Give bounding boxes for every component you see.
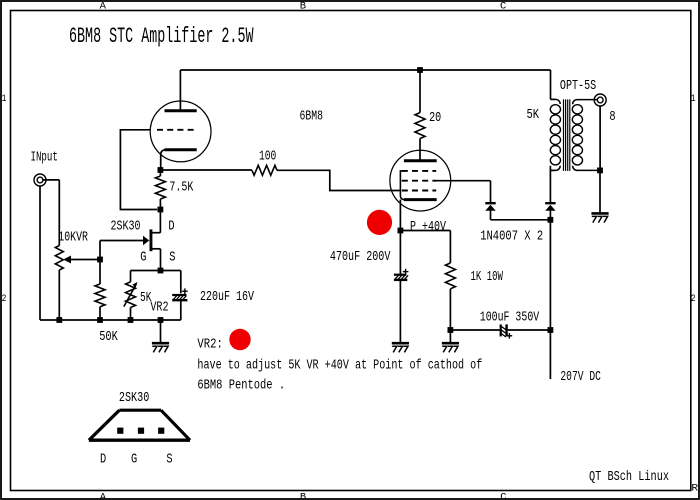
svg-text:D: D [168,219,174,235]
wire 100 to pentode grid [277,170,401,190]
red marker at VR2 note [229,329,250,350]
svg-text:1K 10W: 1K 10W [471,269,504,285]
svg-text:207V DC: 207V DC [560,369,601,385]
svg-text:6BM8 Pentode .: 6BM8 Pentode . [197,378,285,394]
svg-text:1: 1 [2,93,7,105]
svg-text:S: S [169,249,175,265]
svg-text:6BM8 STC Amplifier 2.5W: 6BM8 STC Amplifier 2.5W [69,24,254,49]
wire input ground rail [40,319,181,321]
transistor Q1 2SK30 JFET [100,210,176,271]
svg-text:2SK30: 2SK30 [111,219,141,235]
ground secondary [591,170,608,222]
wire source rail [131,270,181,272]
wire triode grid feedback [120,130,157,210]
svg-text:OPT-5S: OPT-5S [560,78,596,94]
wire jack to pot [43,180,59,246]
red marker at pentode cathode [367,210,392,235]
svg-text:B: B [300,491,306,500]
capacitor C3 100uF 350V [450,310,550,339]
note VR2 text [197,337,482,394]
capacitor C1 220uF 16V [172,271,254,321]
svg-text:C: C [500,1,506,13]
svg-text:1: 1 [691,93,696,105]
svg-text:A: A [100,491,107,500]
node junction top of 20-ohm [417,67,423,73]
svg-text:100: 100 [259,149,276,165]
ground input stage [152,320,169,352]
node P cathode +40V [398,219,447,235]
credit text [589,469,669,485]
label 1N4007 [480,229,543,245]
svg-text:D: D [100,452,106,468]
node pot ground [56,317,62,323]
svg-text:VR2:: VR2: [197,337,222,353]
resistor 20 (screen/plate dropper) [415,70,441,161]
svg-text:8: 8 [609,109,615,125]
output jack J2 [594,94,606,106]
title text [69,24,254,49]
node rail ground stub [158,317,164,323]
node diode junction [548,217,554,223]
wire top B+ rail [180,70,550,111]
svg-text:P +40V: P +40V [410,219,446,235]
variable resistor VR2 5K source bias [124,271,169,321]
svg-text:G: G [140,249,146,265]
node wiper junction [97,257,103,263]
svg-text:20: 20 [429,110,441,126]
svg-text:2: 2 [2,293,7,305]
svg-text:G: G [131,452,137,468]
node triode cathode [158,167,164,173]
wire output jack down [599,106,601,170]
2SK30 package pinout drawing [89,390,190,468]
diode D1 1N4007 [485,203,495,211]
svg-text:50K: 50K [99,329,118,345]
svg-text:10KVR: 10KVR [58,229,88,245]
node bottom of 7.5K / JFET drain [158,207,164,213]
svg-text:B: B [300,1,306,13]
node 50K ground [97,317,103,323]
wire D1 anode [491,211,551,220]
svg-text:S: S [166,452,172,468]
svg-text:6BM8: 6BM8 [300,108,324,124]
node secondary ground [597,168,603,174]
wire cathode to 100 resistor [160,169,252,171]
input jack J1 [31,150,58,186]
svg-text:C: C [500,491,506,500]
svg-text:have to adjust 5K VR +40V at P: have to adjust 5K VR +40V at Point of ca… [197,358,482,374]
node JFET source [158,268,164,274]
svg-text:2: 2 [691,293,696,305]
svg-text:220uF 16V: 220uF 16V [200,289,254,305]
node VR2 ground [128,317,134,323]
node B+ bus [548,327,554,333]
capacitor C2 470uF 200V with ground [330,231,409,353]
wire B+ 207V DC [550,220,601,385]
svg-text:VR2: VR2 [150,300,168,316]
svg-text:100uF 350V: 100uF 350V [480,310,540,326]
resistor 100 grid stopper [252,149,277,176]
triode section of 6BM8 V1 [150,101,211,170]
node 1K bottom [442,327,459,352]
wire jack sleeve down [39,186,41,320]
svg-text:5K: 5K [527,107,540,123]
resistor 7.5K cathode load [155,170,193,210]
svg-text:7.5K: 7.5K [169,179,193,195]
resistor 50K gate leak [95,284,118,345]
svg-text:R: R [691,483,699,495]
svg-text:2SK30: 2SK30 [119,390,149,406]
transformer T1 OPT-5S [527,78,616,171]
diode D2 1N4007 [545,170,555,219]
wire gate bus [99,241,101,285]
svg-text:QT BSch Linux: QT BSch Linux [589,469,669,485]
resistor 1K 10W bleeder [400,231,503,331]
svg-text:470uF 200V: 470uF 200V [330,249,391,265]
svg-text:INput: INput [31,150,58,166]
wire screen to diodes [436,181,491,203]
pentode section of 6BM8 V1 [300,108,451,230]
svg-text:A: A [100,1,107,13]
potentiometer 10KVR volume [55,229,100,320]
svg-text:1N4007 X 2: 1N4007 X 2 [480,229,543,245]
